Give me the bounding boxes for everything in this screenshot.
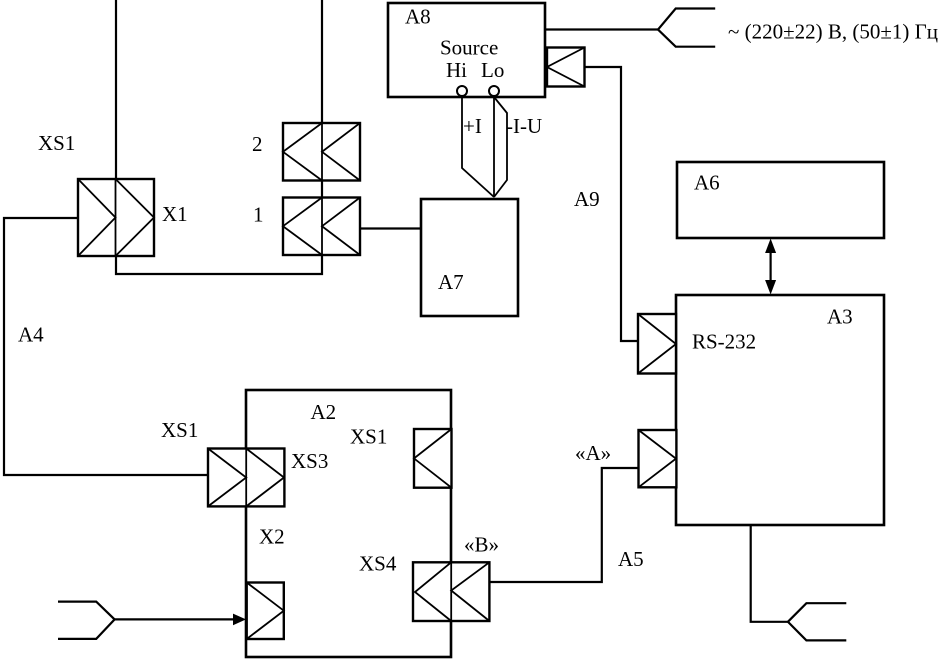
svg-text:A3: A3 [827, 305, 853, 329]
svg-text:A6: A6 [694, 171, 720, 195]
svg-text:A8: A8 [405, 5, 431, 29]
svg-text:A7: A7 [438, 270, 464, 294]
svg-text:+I: +I [463, 114, 482, 138]
svg-text:A9: A9 [574, 187, 600, 211]
svg-text:2: 2 [252, 132, 263, 156]
svg-text:XS1: XS1 [38, 131, 75, 155]
svg-text:XS4: XS4 [359, 552, 397, 576]
svg-text:RS-232: RS-232 [692, 330, 756, 354]
svg-text:XS1: XS1 [161, 418, 198, 442]
svg-text:Source: Source [440, 36, 498, 60]
svg-text:Hi: Hi [446, 58, 467, 82]
svg-text:~ (220±22) В, (50±1) Гц: ~ (220±22) В, (50±1) Гц [728, 20, 938, 44]
svg-text:A4: A4 [18, 323, 44, 347]
svg-text:Lo: Lo [481, 58, 504, 82]
svg-text:A2: A2 [311, 400, 337, 424]
svg-text:«А»: «А» [575, 441, 611, 465]
svg-text:XS1: XS1 [350, 425, 387, 449]
svg-text:XS3: XS3 [291, 449, 328, 473]
svg-text:X1: X1 [162, 202, 188, 226]
svg-text:«В»: «В» [464, 533, 499, 557]
svg-text:X2: X2 [259, 525, 285, 549]
svg-text:1: 1 [253, 203, 264, 227]
svg-text:A5: A5 [618, 547, 644, 571]
svg-text:-I-U: -I-U [506, 114, 542, 138]
